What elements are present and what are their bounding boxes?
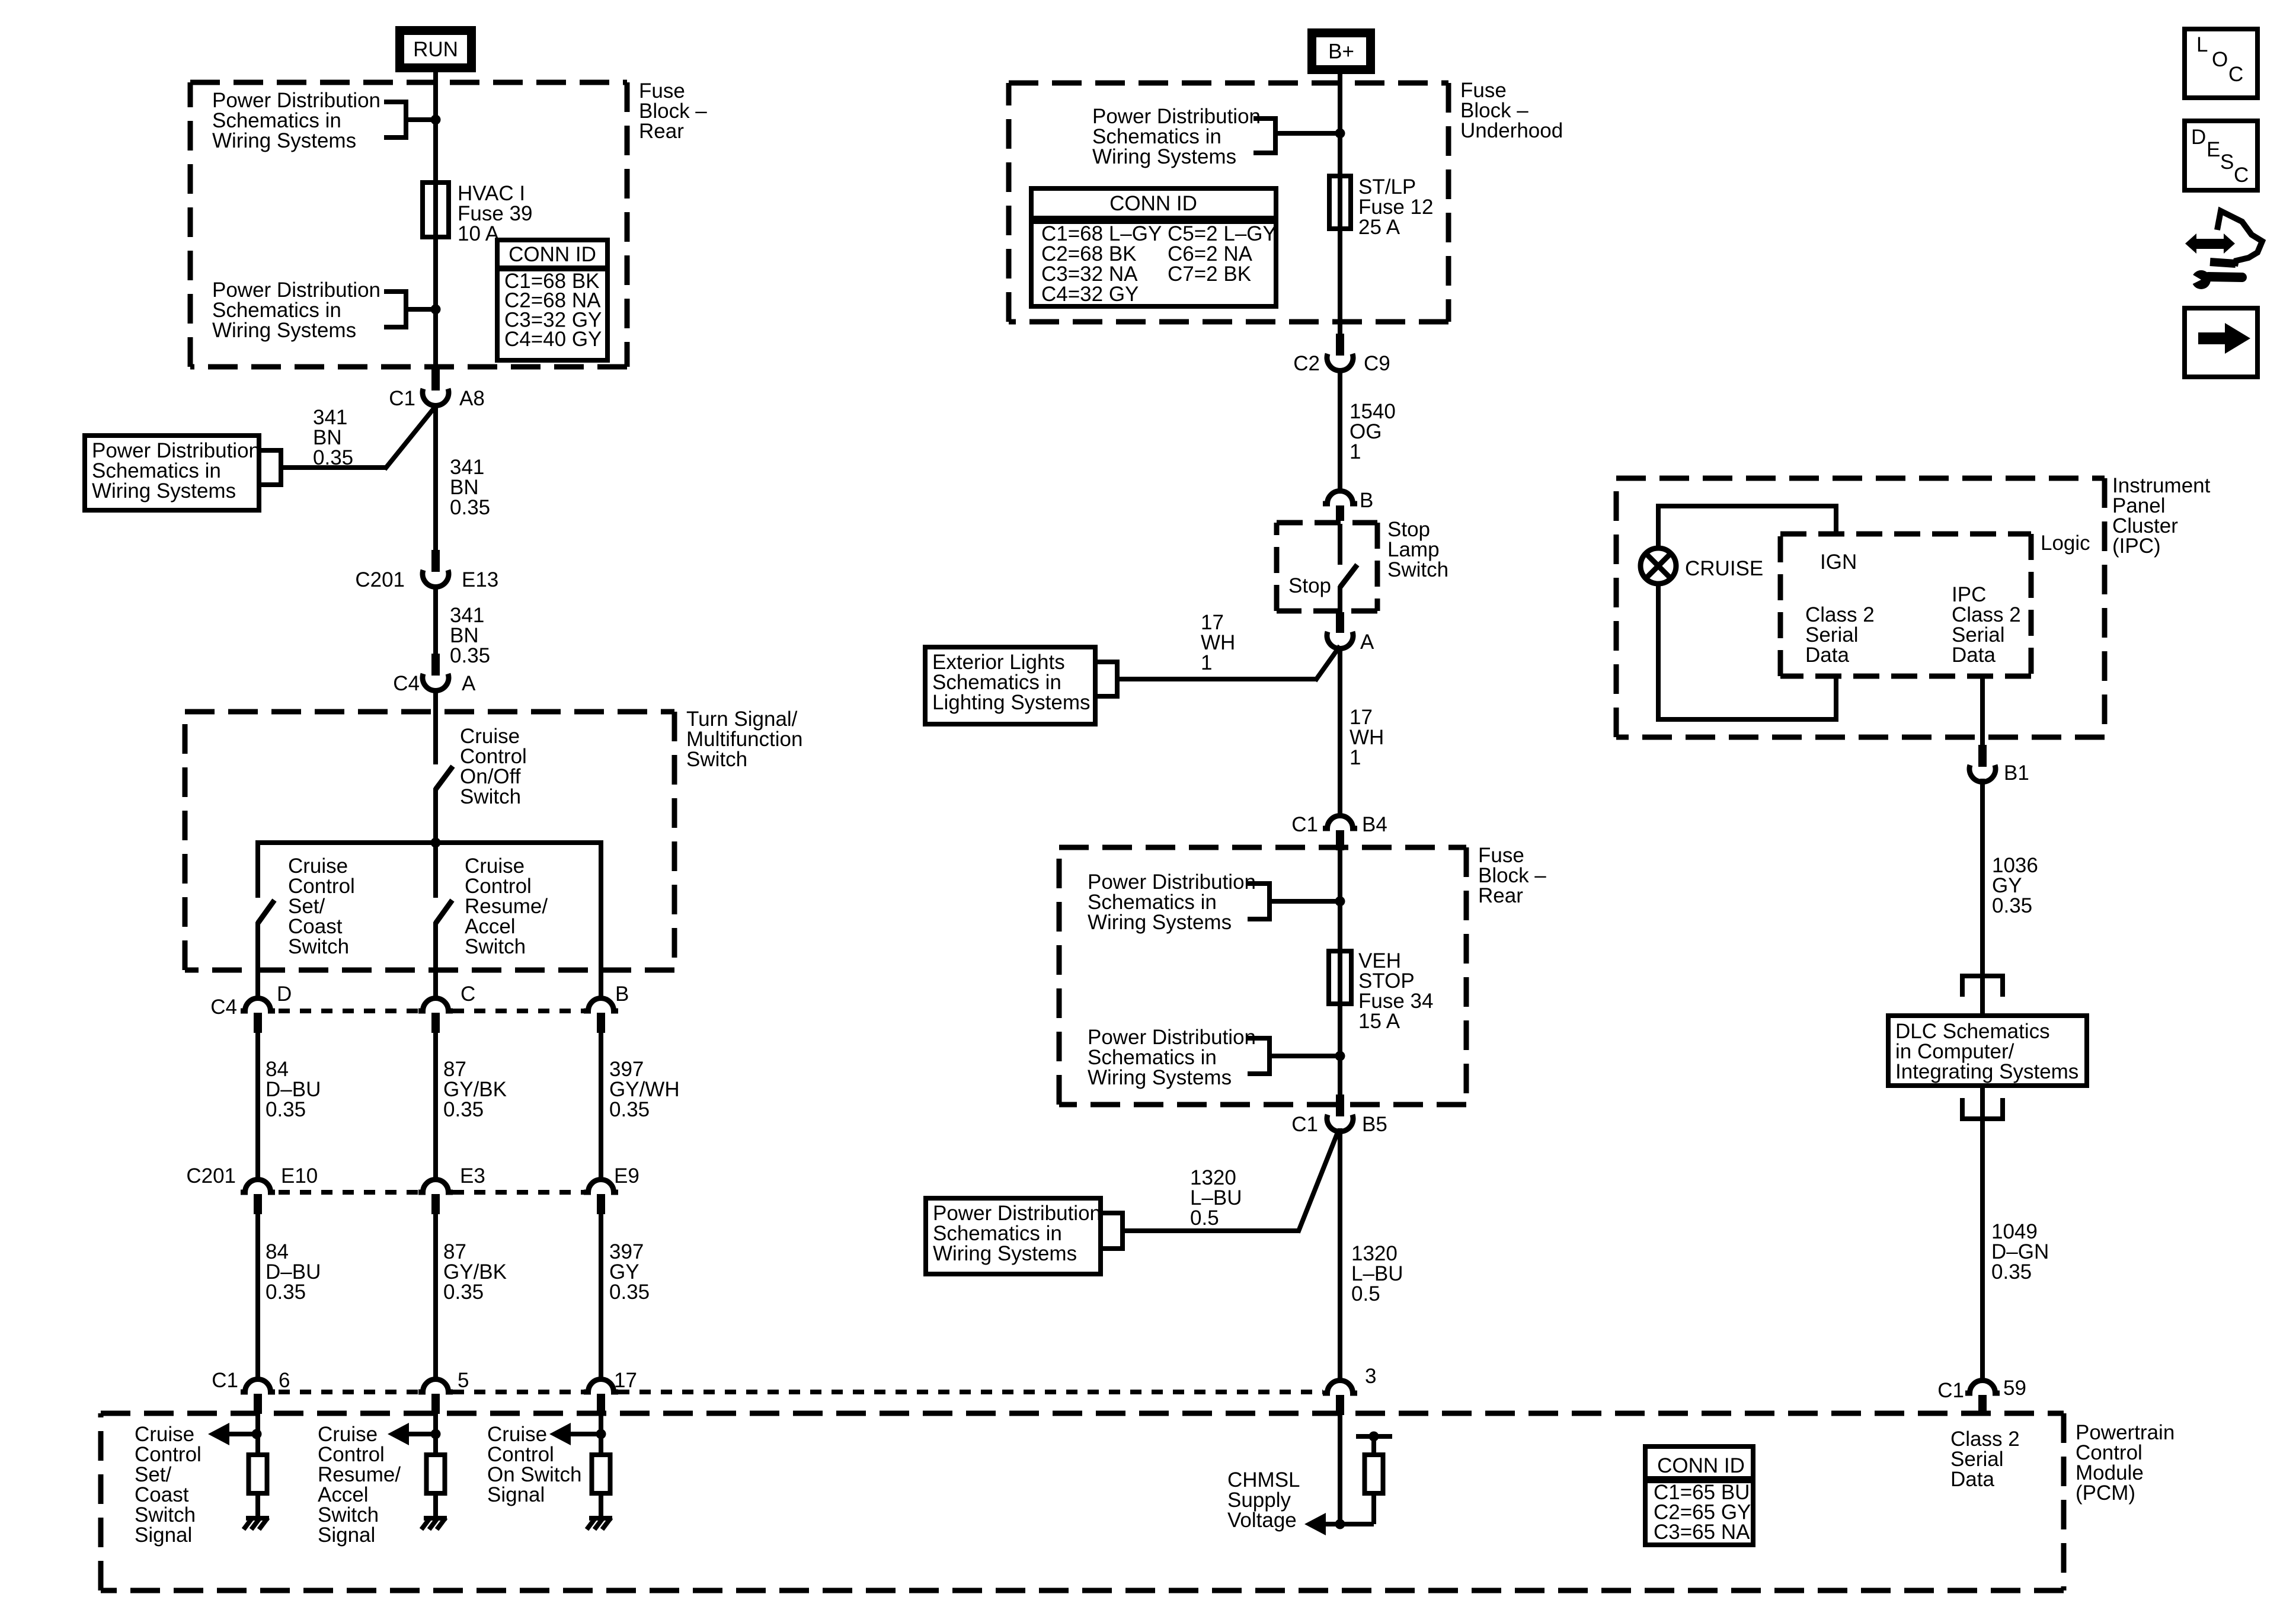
wires down from D C B bbox=[255, 1033, 260, 1180]
svg-text:15 A: 15 A bbox=[1358, 1010, 1400, 1033]
svg-text:Wiring Systems: Wiring Systems bbox=[92, 479, 236, 503]
connector E9 bbox=[584, 1180, 618, 1193]
svg-text:Data: Data bbox=[1950, 1468, 1994, 1491]
instrument panel cluster dashed box bbox=[1616, 476, 2105, 481]
svg-text:59: 59 bbox=[2003, 1377, 2026, 1400]
svg-text:C4: C4 bbox=[210, 996, 237, 1019]
junction bbox=[1335, 1051, 1345, 1061]
junction bbox=[431, 115, 441, 125]
wire into switch bbox=[1338, 524, 1342, 565]
svg-text:Wiring Systems: Wiring Systems bbox=[212, 319, 356, 342]
wire B5 to PCM pin 3 bbox=[1338, 1128, 1342, 1381]
resistor bbox=[249, 1455, 267, 1493]
wire C9 to stop lamp switch bbox=[1338, 368, 1342, 491]
svg-text:Wiring Systems: Wiring Systems bbox=[1088, 911, 1232, 934]
svg-text:C1: C1 bbox=[389, 387, 415, 410]
svg-text:C9: C9 bbox=[1364, 352, 1390, 375]
svg-text:10 A: 10 A bbox=[458, 222, 500, 245]
svg-text:S: S bbox=[2220, 151, 2234, 174]
svg-text:0.35: 0.35 bbox=[450, 644, 490, 667]
svg-text:D: D bbox=[2191, 126, 2206, 149]
turn signal / multifunction switch dashed box bbox=[185, 709, 674, 715]
svg-text:Rear: Rear bbox=[1478, 884, 1523, 907]
connector 3 (PCM) bbox=[1323, 1381, 1357, 1394]
svg-text:Switch: Switch bbox=[686, 748, 747, 771]
connector C1 / 6 bbox=[241, 1380, 275, 1393]
CONN ID table (PCM) bbox=[1645, 1446, 1753, 1545]
svg-text:E13: E13 bbox=[462, 568, 498, 591]
wire A to B4 bbox=[1338, 646, 1342, 818]
svg-text:B5: B5 bbox=[1362, 1113, 1387, 1136]
PCM input: cruise resume/accel switch signal bbox=[433, 1414, 438, 1455]
svg-text:Lighting Systems: Lighting Systems bbox=[932, 691, 1091, 714]
CONN ID table (fuse block rear) bbox=[497, 240, 607, 360]
svg-text:3: 3 bbox=[1365, 1365, 1376, 1388]
fuse HVAC I Fuse 39 10 A bbox=[423, 183, 449, 237]
connector dashes C4 row bbox=[279, 1009, 418, 1013]
svg-text:E9: E9 bbox=[614, 1164, 639, 1188]
wire to C1/A8 bbox=[281, 465, 386, 470]
wire: B+ feed through ST/LP fuse to C2/C9 bbox=[1338, 74, 1342, 334]
svg-text:Signal: Signal bbox=[318, 1524, 375, 1547]
svg-text:C201: C201 bbox=[355, 568, 405, 591]
svg-text:6: 6 bbox=[279, 1369, 290, 1392]
connector C bbox=[418, 998, 453, 1012]
svg-text:0.35: 0.35 bbox=[609, 1098, 650, 1121]
svg-text:Wiring Systems: Wiring Systems bbox=[933, 1242, 1077, 1265]
PCM input: cruise on switch signal bbox=[599, 1414, 603, 1455]
svg-text:C1: C1 bbox=[212, 1369, 238, 1392]
svg-text:B4: B4 bbox=[1362, 813, 1387, 836]
svg-text:RUN: RUN bbox=[413, 38, 458, 61]
note box: DLC Schematics in Computer/Integrating Systems bbox=[1888, 1016, 2087, 1086]
svg-text:O: O bbox=[2212, 48, 2228, 71]
terminal B+ (battery voltage) bbox=[1307, 28, 1375, 74]
wire lamp to class 2 serial data bbox=[1658, 583, 1836, 719]
wire: middle branch upper bbox=[433, 843, 438, 898]
svg-text:Stop: Stop bbox=[1288, 574, 1331, 597]
ground bbox=[424, 1516, 447, 1521]
fuse block - rear dashed box (left) bbox=[190, 80, 627, 85]
terminal RUN (ignition voltage) bbox=[395, 26, 476, 72]
junction bbox=[431, 305, 441, 315]
svg-text:B: B bbox=[1360, 489, 1373, 512]
svg-text:A8: A8 bbox=[459, 387, 485, 410]
switch: cruise control resume/accel bbox=[436, 900, 452, 923]
svg-text:C2: C2 bbox=[1293, 352, 1320, 375]
svg-text:17: 17 bbox=[614, 1369, 637, 1392]
connector C1 / A8 bbox=[431, 369, 440, 391]
svg-text:B+: B+ bbox=[1328, 40, 1354, 63]
resistor bbox=[592, 1455, 610, 1493]
powertrain control module dashed box bbox=[101, 1411, 2064, 1416]
svg-text:CRUISE: CRUISE bbox=[1685, 557, 1763, 580]
svg-text:A: A bbox=[1360, 631, 1374, 654]
connector E3 bbox=[418, 1180, 453, 1193]
svg-text:C4=32 GY: C4=32 GY bbox=[1041, 283, 1139, 306]
in-line connector (staple) below DLC bbox=[1962, 1098, 2003, 1119]
svg-text:Wiring Systems: Wiring Systems bbox=[1092, 145, 1236, 168]
wires down bbox=[255, 1214, 260, 1380]
wire into on/off switch bbox=[433, 688, 438, 764]
wire E13 to C4 bbox=[433, 584, 438, 654]
svg-text:(IPC): (IPC) bbox=[2112, 535, 2161, 558]
svg-text:Signal: Signal bbox=[135, 1524, 192, 1547]
fuse VEH STOP Fuse 34 15 A bbox=[1329, 951, 1351, 1004]
connector C4 / D bbox=[241, 998, 275, 1012]
svg-text:C: C bbox=[461, 982, 475, 1006]
svg-text:0.35: 0.35 bbox=[266, 1098, 306, 1121]
switch: stop lamp bbox=[1340, 565, 1357, 587]
svg-text:0.35: 0.35 bbox=[443, 1098, 484, 1121]
wire B4 through VEH STOP fuse to C1/B5 bbox=[1338, 849, 1342, 1095]
connector C1 / B5 bbox=[1336, 1094, 1344, 1116]
ground bbox=[246, 1516, 269, 1521]
fuse block - underhood dashed box bbox=[1009, 81, 1448, 86]
wire lamp to IGN bbox=[1658, 506, 1836, 549]
svg-text:0.5: 0.5 bbox=[1190, 1206, 1219, 1230]
svg-text:Switch: Switch bbox=[288, 935, 349, 958]
svg-text:C: C bbox=[2234, 164, 2249, 187]
svg-text:Data: Data bbox=[1805, 644, 1849, 667]
wire to connector A bbox=[1117, 677, 1317, 681]
wire IPC to B1 bbox=[1980, 676, 1985, 745]
indicator lamp CRUISE bbox=[1641, 548, 1676, 584]
note box: Power Distribution Schematics in Wiring Systems (solid) bbox=[85, 436, 259, 510]
svg-text:(PCM): (PCM) bbox=[2076, 1481, 2135, 1505]
bracket to wire bbox=[384, 102, 406, 137]
svg-text:C4=40 GY: C4=40 GY bbox=[504, 328, 602, 351]
svg-text:1: 1 bbox=[1350, 746, 1361, 769]
svg-text:Logic: Logic bbox=[2041, 532, 2090, 555]
svg-text:C1: C1 bbox=[1291, 813, 1318, 836]
connector 5 bbox=[418, 1380, 453, 1393]
wire to bus bbox=[433, 788, 438, 845]
svg-text:C1: C1 bbox=[1291, 1113, 1318, 1136]
switch: cruise control set/coast bbox=[258, 900, 274, 923]
svg-text:E: E bbox=[2207, 138, 2220, 161]
wire A8 to C201 bbox=[433, 403, 438, 550]
in-line connector (staple) above DLC bbox=[1962, 976, 2003, 997]
CHMSL supply voltage arrow bbox=[1304, 1513, 1326, 1535]
svg-text:0.35: 0.35 bbox=[1992, 894, 2032, 917]
svg-text:CONN ID: CONN ID bbox=[1109, 192, 1197, 215]
svg-text:E10: E10 bbox=[281, 1164, 318, 1188]
connector C2 / C9 bbox=[1336, 334, 1344, 356]
svg-text:0.35: 0.35 bbox=[266, 1281, 306, 1304]
wire to B5 bbox=[1123, 1228, 1300, 1233]
fuse block - rear dashed box (middle) bbox=[1059, 845, 1466, 850]
svg-text:C201: C201 bbox=[186, 1164, 236, 1188]
svg-text:Rear: Rear bbox=[639, 120, 684, 143]
wire: left branch upper bbox=[255, 840, 260, 898]
connector 17 bbox=[584, 1380, 618, 1393]
svg-text:Data: Data bbox=[1952, 644, 1996, 667]
svg-text:IGN: IGN bbox=[1820, 551, 1857, 574]
junction bbox=[431, 838, 441, 848]
junction bbox=[1335, 897, 1345, 907]
fuse ST/LP Fuse 12 25 A bbox=[1329, 176, 1351, 229]
svg-text:1: 1 bbox=[1201, 651, 1212, 674]
note box: Exterior Lights Schematics in Lighting Systems bbox=[925, 647, 1095, 724]
svg-text:Integrating Systems: Integrating Systems bbox=[1895, 1060, 2078, 1083]
svg-text:B: B bbox=[615, 982, 629, 1006]
svg-text:C: C bbox=[2228, 63, 2243, 86]
svg-text:1: 1 bbox=[1350, 440, 1361, 463]
icon box DESC bbox=[2185, 121, 2257, 190]
wire bbox=[255, 922, 260, 999]
svg-text:CONN ID: CONN ID bbox=[1657, 1454, 1745, 1477]
resistor bbox=[1365, 1455, 1383, 1493]
wrench bbox=[2192, 270, 2211, 289]
svg-text:Wiring Systems: Wiring Systems bbox=[1088, 1066, 1232, 1089]
wire into PCM bbox=[1338, 1415, 1342, 1524]
svg-text:Voltage: Voltage bbox=[1227, 1509, 1297, 1532]
svg-text:Switch: Switch bbox=[465, 935, 526, 958]
svg-text:A: A bbox=[462, 672, 476, 695]
connector A bbox=[1336, 612, 1344, 633]
connector B1 bbox=[1978, 745, 1987, 767]
wire: RUN feed down through Fuse Block - Rear to C1/A8 bbox=[433, 72, 438, 369]
svg-text:0.35: 0.35 bbox=[450, 496, 490, 519]
bus wire across three branches bbox=[258, 840, 601, 845]
svg-text:Switch: Switch bbox=[1387, 558, 1448, 581]
connector dashes C201 row bbox=[279, 1190, 418, 1195]
logic dashed box bbox=[1780, 532, 2031, 537]
svg-text:C4: C4 bbox=[393, 672, 420, 695]
svg-text:B1: B1 bbox=[2004, 761, 2029, 785]
connector B (stop lamp switch) bbox=[1323, 491, 1357, 504]
svg-text:Signal: Signal bbox=[487, 1483, 545, 1506]
svg-text:Underhood: Underhood bbox=[1460, 119, 1563, 142]
icon: schematic navigation (arrows and wrench) bbox=[2185, 233, 2196, 254]
svg-text:0.35: 0.35 bbox=[443, 1281, 484, 1304]
svg-text:L: L bbox=[2196, 33, 2208, 56]
svg-text:0.35: 0.35 bbox=[609, 1281, 650, 1304]
CONN ID table (fuse block underhood) bbox=[1031, 188, 1276, 306]
svg-text:C3=65 NA: C3=65 NA bbox=[1654, 1521, 1750, 1544]
connector C201 / E13 bbox=[431, 550, 440, 572]
svg-text:D: D bbox=[277, 982, 292, 1006]
svg-text:5: 5 bbox=[458, 1369, 469, 1392]
wire bbox=[433, 922, 438, 999]
connector B bbox=[584, 998, 618, 1012]
connector C1 dash line to PCM pin 3 bbox=[279, 1390, 418, 1394]
junction bbox=[1335, 129, 1345, 139]
connector C4 / A bbox=[431, 654, 440, 676]
svg-text:25 A: 25 A bbox=[1358, 216, 1400, 239]
resistor bbox=[427, 1455, 445, 1493]
connector C1 / B4 bbox=[1323, 816, 1357, 829]
wire B1 to DLC bbox=[1980, 779, 1985, 1016]
ground bbox=[589, 1516, 612, 1521]
icon box LOC bbox=[2185, 29, 2257, 98]
PCM input: cruise set/coast switch signal bbox=[255, 1414, 260, 1455]
note box: Power Distribution Schematics in Wiring Systems (solid) bbox=[926, 1198, 1101, 1274]
svg-text:C7=2 BK: C7=2 BK bbox=[1168, 263, 1251, 286]
svg-text:Wiring Systems: Wiring Systems bbox=[212, 129, 356, 152]
wire DLC to PCM bbox=[1980, 1086, 1985, 1381]
svg-text:0.35: 0.35 bbox=[1991, 1260, 2032, 1284]
icon box forward arrow bbox=[2185, 308, 2257, 377]
svg-text:C1: C1 bbox=[1937, 1379, 1964, 1402]
connector C201 / E10 bbox=[241, 1180, 275, 1193]
svg-text:Switch: Switch bbox=[460, 785, 521, 808]
connector C1 / 59 (PCM) bbox=[1965, 1381, 2000, 1394]
svg-text:E3: E3 bbox=[460, 1164, 485, 1188]
junction bbox=[1335, 1519, 1345, 1529]
svg-text:0.5: 0.5 bbox=[1351, 1282, 1380, 1305]
wire: right branch (on switch output) bbox=[599, 840, 603, 999]
stop lamp switch dashed box bbox=[1277, 520, 1377, 526]
PCM internal pull-up: T bar bbox=[1356, 1434, 1392, 1439]
svg-text:CONN ID: CONN ID bbox=[509, 243, 596, 266]
switch: cruise control on/off bbox=[436, 766, 453, 789]
